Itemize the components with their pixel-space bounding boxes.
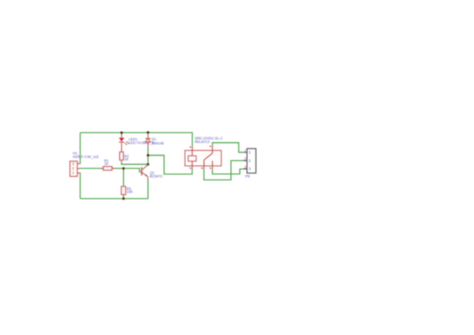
- svg-text:2: 2: [244, 157, 246, 161]
- node R3-ground junction: [122, 197, 125, 200]
- svg-text:BC547C: BC547C: [150, 175, 163, 179]
- resistor R2 1K: [120, 149, 130, 162]
- wire node to collector node: [147, 155, 149, 164]
- svg-text:1: 1: [249, 151, 251, 155]
- wire relay NC contact to P6 pin 2: [204, 161, 243, 180]
- wire rail to LED1 anode: [121, 133, 123, 136]
- diode D1 1N4148: [145, 135, 163, 147]
- node rail-D1 junction: [147, 131, 150, 134]
- wire R1 to base node: [112, 167, 124, 169]
- node flyback junction: [147, 154, 150, 157]
- transistor Q1 BC547C: [142, 165, 164, 180]
- wire relay common to P6 pin 1: [212, 143, 243, 153]
- wire rail drop to relay coil pin 1: [191, 132, 193, 146]
- wire R2 bottom jog to collector node: [122, 162, 149, 165]
- svg-text:10K: 10K: [127, 190, 134, 194]
- wire base node to R3: [123, 168, 125, 186]
- svg-text:P6: P6: [245, 174, 249, 178]
- relay RELAY13 SRD-12VDC-SL-C: [185, 137, 223, 170]
- wire supply drop to H1 pin 3: [79, 133, 81, 164]
- svg-text:1N4148: 1N4148: [152, 141, 164, 145]
- wire base node to Q1 base: [124, 168, 142, 172]
- svg-text:2: 2: [249, 159, 251, 163]
- relay pin number tick marks: [190, 146, 211, 169]
- svg-text:2: 2: [72, 167, 74, 171]
- wire H1 pin 2 to R1: [80, 167, 103, 169]
- connector H1 HDR-F-2.54_1x3: [70, 151, 99, 176]
- svg-text:3: 3: [244, 165, 246, 169]
- svg-text:1: 1: [72, 171, 74, 175]
- svg-text:3: 3: [72, 162, 74, 166]
- wire rail to D1 cathode: [147, 133, 149, 136]
- svg-text:HDR-F-2.54_1x3: HDR-F-2.54_1x3: [73, 155, 99, 159]
- wire +12V top rail: [80, 132, 192, 134]
- svg-text:1K: 1K: [104, 162, 109, 166]
- wire ground rail: [80, 198, 148, 200]
- svg-text:3: 3: [249, 167, 251, 171]
- wire flyback node to relay coil pin 2: [148, 155, 192, 174]
- node base junction: [122, 167, 125, 170]
- wire relay NO contact to P6 pin 3: [212, 169, 243, 174]
- wire H1 pin 1 to ground rail: [79, 173, 81, 199]
- wire Q1 emitter to ground rail: [147, 179, 149, 199]
- wire R3 to ground rail: [123, 195, 125, 199]
- svg-text:1K: 1K: [124, 157, 129, 161]
- connector P6: [243, 149, 256, 179]
- node collector junction: [147, 163, 150, 166]
- resistor R3 10K: [121, 186, 133, 194]
- wire D1 anode down to node: [147, 147, 149, 156]
- node rail-LED1 junction: [120, 131, 123, 134]
- LED LED1 LED-TH-5MM_R: [119, 135, 155, 149]
- svg-text:1: 1: [244, 149, 246, 153]
- resistor R1 1K: [101, 159, 114, 170]
- svg-text:RELAY13: RELAY13: [195, 140, 210, 144]
